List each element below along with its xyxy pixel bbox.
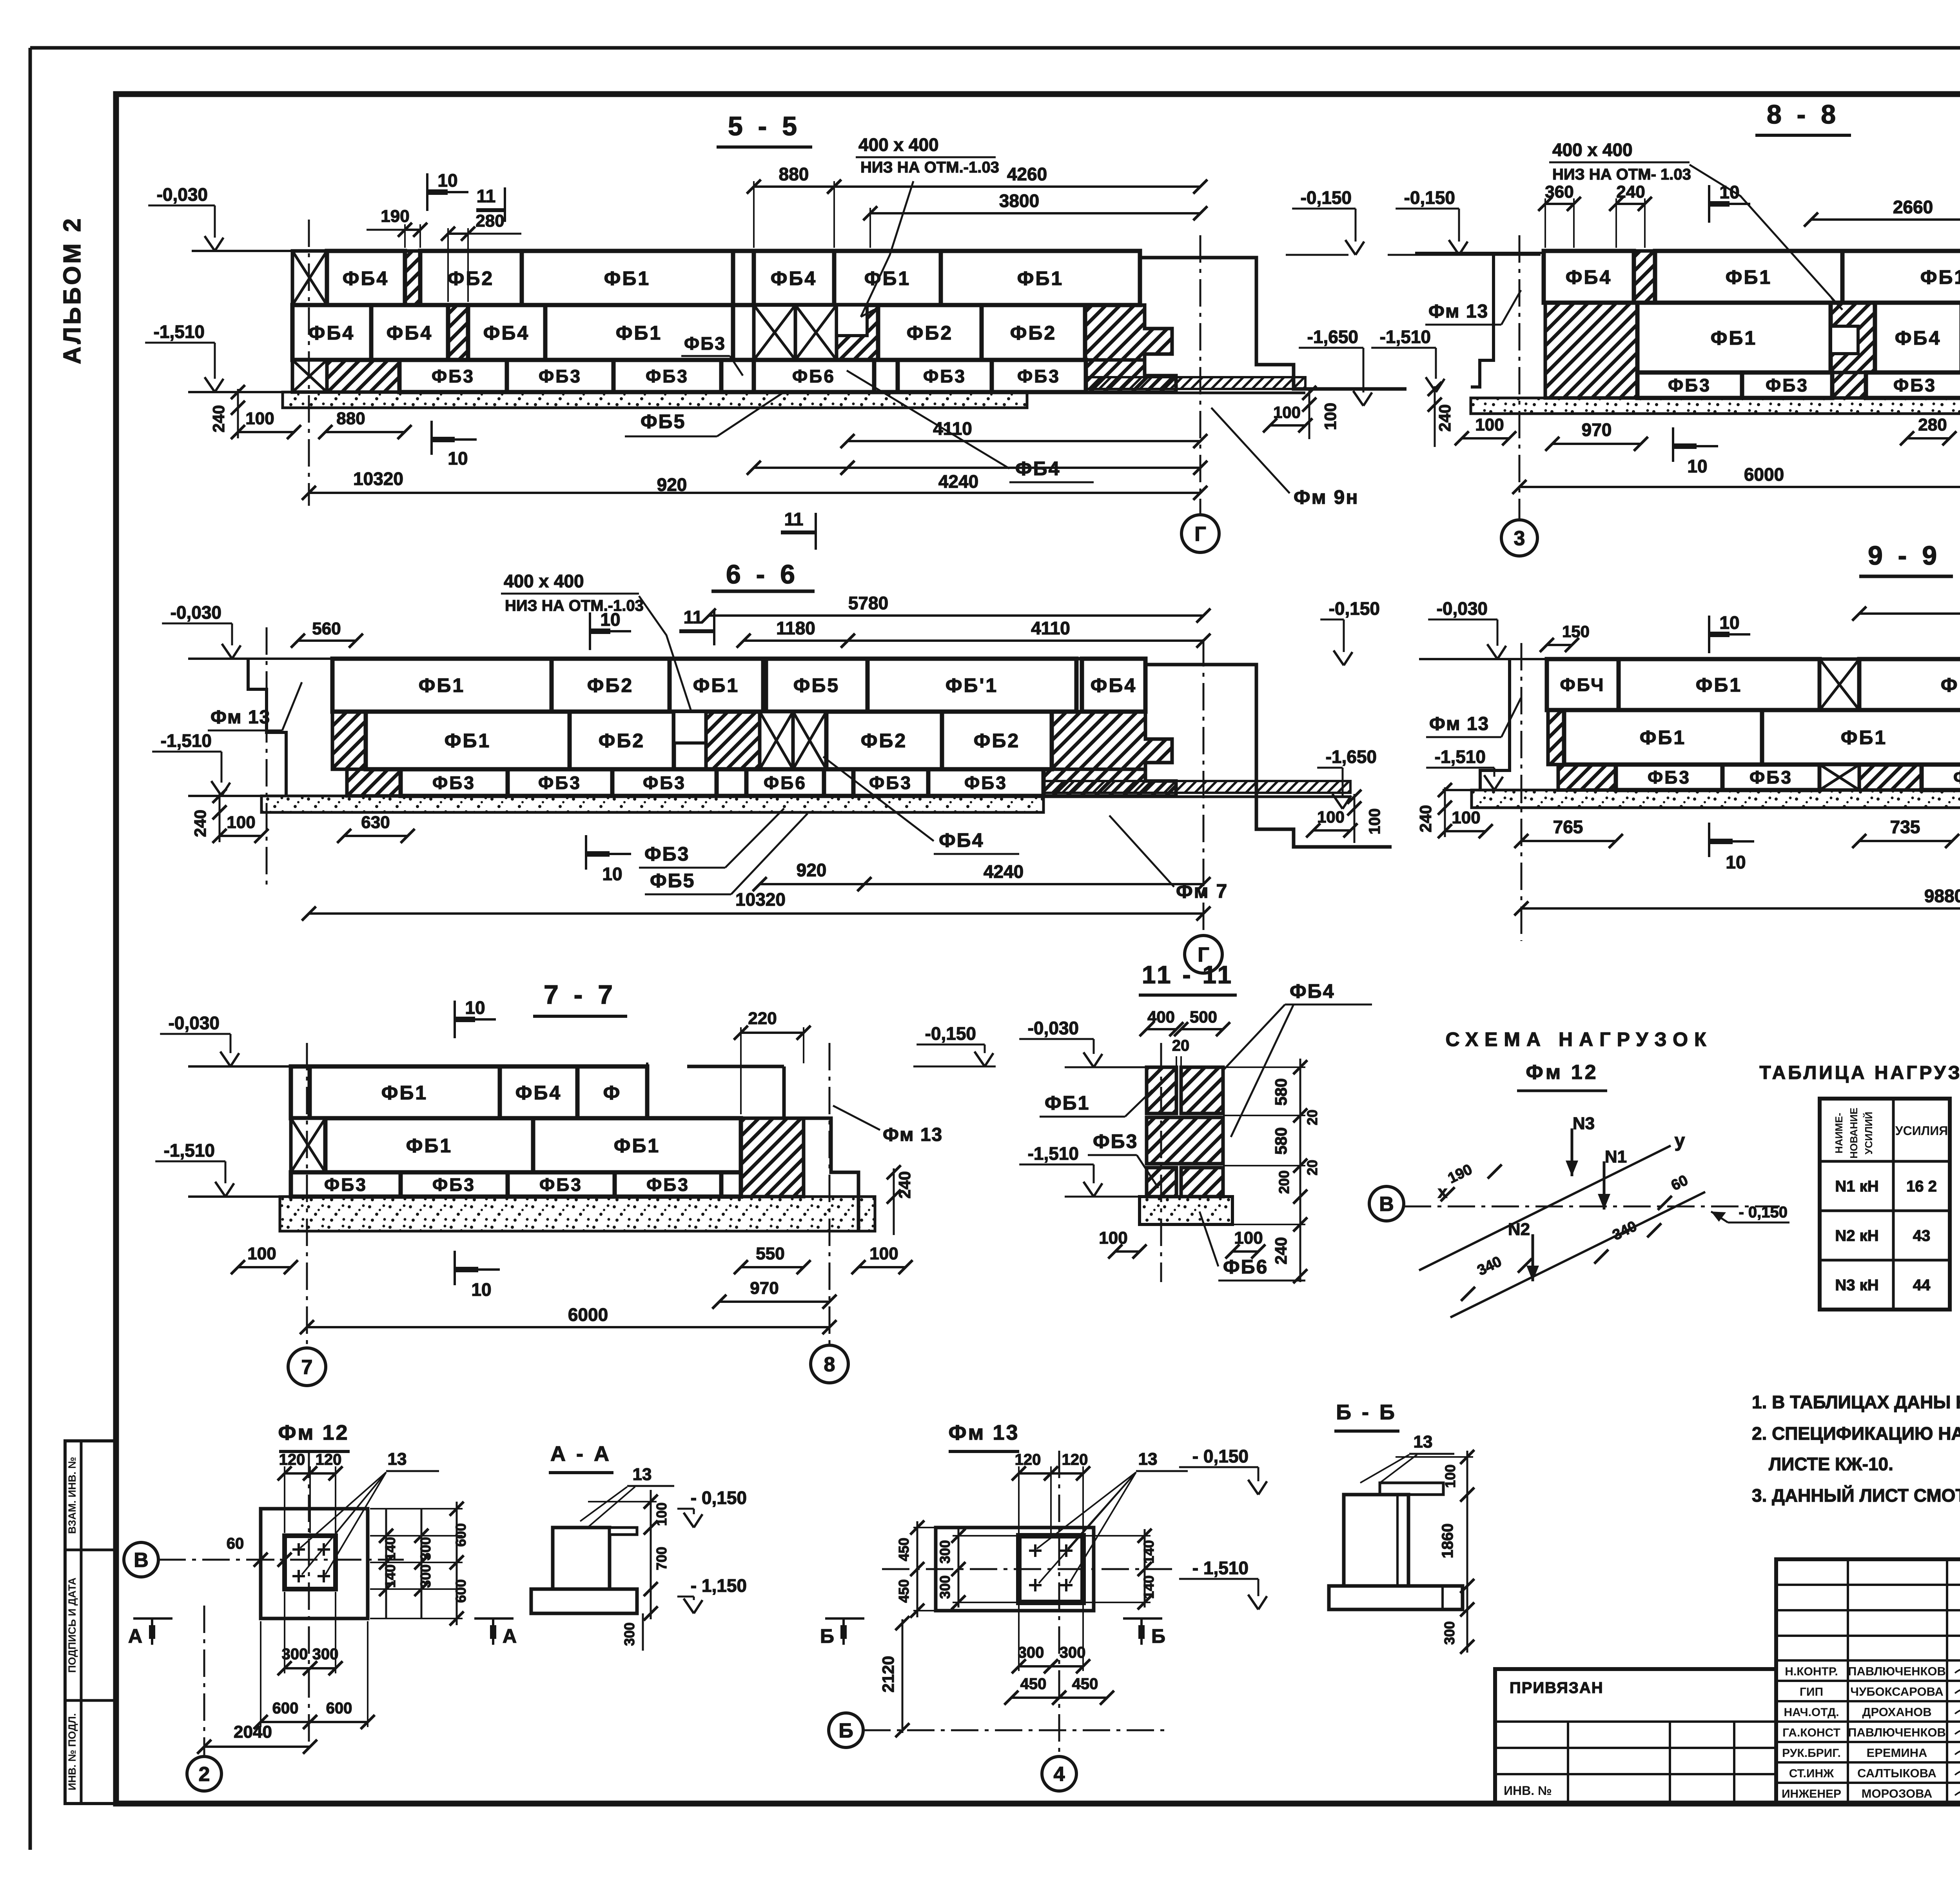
- 7-7 floor level lines: [188, 1065, 291, 1068]
- 9-9 sand strip: [1472, 790, 1960, 808]
- svg-text:1860: 1860: [1439, 1524, 1456, 1559]
- 6-6 bottom 240: [219, 793, 221, 842]
- svg-text:300: 300: [312, 1646, 339, 1663]
- plan Fm12 right vdims: [385, 1509, 387, 1618]
- 9-9 row1: [1547, 659, 1619, 710]
- svg-text:ФБ3: ФБ3: [964, 773, 1007, 793]
- svg-text:СХЕМА НАГРУЗОК: СХЕМА НАГРУЗОК: [1446, 1028, 1713, 1050]
- svg-text:ФБ6: ФБ6: [792, 366, 835, 387]
- 7-7 sand strip: [280, 1197, 875, 1231]
- 7-7 row1: [291, 1066, 310, 1118]
- svg-text:140: 140: [1141, 1540, 1157, 1564]
- 7-7 row3: [291, 1172, 401, 1197]
- svg-text:ФБ1: ФБ1: [1696, 674, 1742, 696]
- svg-text:10: 10: [448, 448, 468, 469]
- 5-5 row3 blocks: [292, 360, 327, 392]
- svg-text:Н.КОНТР.: Н.КОНТР.: [1785, 1665, 1838, 1678]
- svg-text:А: А: [503, 1625, 517, 1647]
- 5-5 right foundation profile: [1140, 251, 1406, 389]
- 7-7 bottom 100 left: [238, 1266, 291, 1268]
- svg-text:100: 100: [1475, 415, 1504, 434]
- svg-text:Ф: Ф: [603, 1082, 622, 1104]
- plan Fm12 axis circle B: [124, 1542, 158, 1577]
- svg-text:280: 280: [1918, 415, 1947, 434]
- 7-7 axis circle 7: [288, 1348, 326, 1386]
- 5-5 floor level line: [192, 250, 292, 252]
- plan Fm12 inner square: [285, 1536, 336, 1589]
- svg-text:ФБ2: ФБ2: [1010, 322, 1056, 344]
- 9-9 dim 150: [1547, 644, 1572, 646]
- svg-text:10: 10: [1719, 612, 1739, 633]
- svg-text:Б: Б: [838, 1720, 853, 1742]
- svg-text:ФБ2: ФБ2: [861, 730, 907, 752]
- sheet outer edge line left: [29, 48, 32, 1850]
- 8-8 row3: [1637, 372, 1742, 398]
- svg-text:11: 11: [477, 186, 496, 206]
- 5-5 cut mark 10 top: [426, 173, 428, 211]
- svg-text:11: 11: [684, 607, 703, 627]
- svg-text:190: 190: [381, 207, 409, 226]
- B-B top plate: [1380, 1483, 1443, 1495]
- svg-text:-0,030: -0,030: [169, 1013, 220, 1033]
- svg-text:ФБ2: ФБ2: [974, 730, 1020, 752]
- svg-text:В: В: [134, 1549, 149, 1572]
- svg-text:ФБ4: ФБ4: [515, 1082, 562, 1104]
- svg-text:ЕРЕМИНА: ЕРЕМИНА: [1867, 1746, 1927, 1760]
- 8-8 dim 360: [1544, 198, 1546, 248]
- svg-text:100: 100: [245, 409, 274, 428]
- 8-8 dim 2660: [1811, 218, 1960, 221]
- svg-text:13: 13: [388, 1450, 407, 1469]
- svg-text:240: 240: [1436, 404, 1454, 432]
- plan Fm12 axis circle 2: [187, 1757, 221, 1791]
- 9-9 row3: [1558, 765, 1616, 790]
- svg-text:300: 300: [621, 1622, 637, 1646]
- svg-text:10: 10: [1687, 456, 1707, 476]
- svg-text:ФБ3: ФБ3: [432, 773, 475, 793]
- svg-text:300: 300: [1441, 1621, 1457, 1645]
- svg-text:ФБ3: ФБ3: [539, 366, 582, 387]
- 9-9 dim 735: [1859, 840, 1952, 842]
- 5-5 vdim 240 right: [1434, 386, 1436, 447]
- 5-5 leader to notch: [861, 181, 913, 317]
- 7-7 axis 8: [829, 1043, 831, 1345]
- svg-text:ТАБЛИЦА НАГРУЗОК: ТАБЛИЦА НАГРУЗОК: [1759, 1063, 1960, 1083]
- svg-text:13: 13: [1414, 1432, 1433, 1451]
- 11-11 axis: [1160, 1043, 1162, 1282]
- 6-6 vdim 100 right: [1354, 794, 1356, 843]
- svg-text:НОВАНИЕ: НОВАНИЕ: [1848, 1108, 1860, 1159]
- 9-9 row2: [1548, 710, 1564, 765]
- svg-text:20: 20: [1304, 1110, 1320, 1125]
- svg-text:РУК.БРИГ.: РУК.БРИГ.: [1782, 1747, 1841, 1760]
- svg-text:ФБ4: ФБ4: [387, 322, 433, 344]
- svg-text:-1,510: -1,510: [1028, 1143, 1079, 1164]
- scheme Fm12 x axis: [1404, 1206, 1780, 1208]
- svg-text:ФБ4: ФБ4: [771, 267, 817, 289]
- svg-text:ФБ1: ФБ1: [1640, 727, 1686, 748]
- svg-text:765: 765: [1553, 817, 1583, 837]
- svg-text:Фм 7: Фм 7: [1176, 880, 1228, 902]
- svg-text:ФБ3: ФБ3: [538, 773, 581, 793]
- svg-text:9 - 9: 9 - 9: [1868, 541, 1941, 570]
- svg-text:120: 120: [316, 1451, 342, 1468]
- svg-text:450: 450: [896, 1579, 912, 1603]
- 5-5 cut mark 10 bottom: [430, 421, 433, 455]
- svg-text:10320: 10320: [735, 889, 786, 910]
- svg-text:Б: Б: [820, 1625, 834, 1647]
- svg-text:Фм 13: Фм 13: [948, 1421, 1019, 1444]
- svg-text:ФБ4: ФБ4: [1566, 266, 1612, 288]
- svg-text:ФБ1: ФБ1: [693, 674, 739, 696]
- svg-text:ФБ4: ФБ4: [483, 322, 530, 344]
- svg-text:-0,030: -0,030: [157, 184, 208, 205]
- svg-text:3: 3: [1514, 527, 1525, 550]
- 5-5 axis left: [308, 220, 310, 506]
- sheet outer edge line top: [30, 46, 1960, 50]
- svg-text:300: 300: [282, 1646, 308, 1663]
- axis circle 3: [1501, 520, 1537, 556]
- svg-text:7: 7: [301, 1356, 313, 1379]
- 6-6 row3: [347, 769, 401, 796]
- svg-text:140: 140: [1141, 1575, 1157, 1599]
- svg-text:ПАВЛЮЧЕНКОВ: ПАВЛЮЧЕНКОВ: [1848, 1664, 1946, 1678]
- left stamp boxes: [65, 1441, 116, 1804]
- svg-text:100: 100: [1321, 403, 1339, 430]
- svg-text:100: 100: [227, 813, 255, 832]
- svg-text:2040: 2040: [234, 1722, 272, 1742]
- plan Fm13 axis circle 4: [1042, 1757, 1076, 1791]
- svg-text:7 - 7: 7 - 7: [544, 980, 617, 1010]
- svg-text:ФБ3: ФБ3: [539, 1175, 583, 1195]
- svg-text:5 - 5: 5 - 5: [728, 111, 801, 141]
- plan Fm12 axes: [158, 1559, 404, 1561]
- svg-text:ФБ1: ФБ1: [1920, 266, 1960, 288]
- 5-5 dim 10320: [309, 492, 1200, 494]
- svg-text:ПОДПИСЬ И ДАТА: ПОДПИСЬ И ДАТА: [66, 1577, 78, 1673]
- A-A column: [553, 1528, 610, 1589]
- svg-text:630: 630: [361, 813, 390, 832]
- 8-8 sand strip: [1471, 398, 1960, 414]
- svg-text:6 - 6: 6 - 6: [726, 559, 799, 589]
- svg-text:16 2: 16 2: [1906, 1178, 1937, 1195]
- svg-text:300: 300: [417, 1537, 434, 1560]
- svg-text:6000: 6000: [1744, 464, 1784, 485]
- svg-text:Б: Б: [1151, 1625, 1165, 1647]
- svg-text:450: 450: [1072, 1675, 1098, 1693]
- svg-text:360: 360: [1545, 182, 1573, 202]
- 8-8 axis 3: [1519, 235, 1521, 519]
- svg-text:240: 240: [895, 1171, 914, 1199]
- svg-text:ФБ3: ФБ3: [646, 366, 689, 387]
- svg-text:970: 970: [750, 1279, 779, 1298]
- 5-5 right end hatched pier: [1085, 305, 1172, 360]
- svg-text:600: 600: [453, 1579, 469, 1603]
- svg-text:N3 кН: N3 кН: [1835, 1277, 1878, 1294]
- svg-text:ГА.КОНСТ: ГА.КОНСТ: [1782, 1726, 1840, 1739]
- 9-9 floor level line: [1419, 658, 1547, 660]
- svg-text:ФБ1: ФБ1: [1045, 1092, 1090, 1114]
- svg-text:ФБ3: ФБ3: [1953, 767, 1960, 788]
- 8-8 left profile Fm13: [1471, 253, 1494, 387]
- 5-5 dim 4240: [848, 467, 1200, 469]
- scheme Fm12 axis circle B: [1369, 1186, 1404, 1221]
- plan Fm13 axes: [882, 1568, 1172, 1570]
- svg-text:N2 кН: N2 кН: [1835, 1227, 1878, 1244]
- A-A vdim: [650, 1490, 652, 1619]
- svg-text:100: 100: [1452, 808, 1480, 827]
- 5-5 dim 100 right: [1270, 424, 1305, 427]
- 5-5 row1 blocks: [292, 251, 327, 305]
- svg-text:N1 кН: N1 кН: [1835, 1178, 1878, 1195]
- svg-text:- 1,510: - 1,510: [1192, 1558, 1249, 1578]
- svg-text:100: 100: [1442, 1464, 1458, 1488]
- svg-text:20: 20: [1172, 1037, 1190, 1054]
- svg-text:100: 100: [1317, 808, 1345, 826]
- svg-text:ФБ5: ФБ5: [641, 411, 686, 432]
- svg-text:-0,150: -0,150: [1404, 187, 1455, 208]
- 9-9 dim 5865: [1859, 612, 1960, 615]
- svg-text:А: А: [128, 1625, 142, 1647]
- svg-text:-0,030: -0,030: [171, 602, 221, 623]
- 5-5 axis G: [1200, 235, 1201, 515]
- 6-6 row2: [332, 712, 366, 769]
- svg-text:880: 880: [336, 409, 365, 428]
- B-B footing: [1329, 1586, 1463, 1609]
- plan Fm12 axis 2 line: [203, 1606, 205, 1755]
- svg-text:- 1,150: - 1,150: [691, 1575, 747, 1596]
- svg-text:ФБЧ: ФБЧ: [1560, 675, 1605, 695]
- svg-text:ФБ3: ФБ3: [643, 773, 686, 793]
- svg-text:ФБ3: ФБ3: [432, 1175, 475, 1195]
- svg-text:240: 240: [1416, 805, 1435, 832]
- svg-text:ФБ4: ФБ4: [309, 322, 355, 344]
- svg-text:ФБ1: ФБ1: [604, 267, 650, 289]
- svg-text:-1,510: -1,510: [164, 1140, 215, 1161]
- svg-text:-0,030: -0,030: [1437, 598, 1488, 619]
- 9-9 dim 9880: [1521, 907, 1960, 910]
- load table 1: [1820, 1099, 1950, 1310]
- svg-text:ФБ5: ФБ5: [793, 674, 840, 696]
- svg-text:ФБ1: ФБ1: [1017, 267, 1063, 289]
- svg-text:240: 240: [1616, 182, 1645, 202]
- svg-text:ФБ3: ФБ3: [1766, 375, 1809, 396]
- svg-text:43: 43: [1913, 1227, 1931, 1244]
- 5-5 400x400 notch: [837, 305, 867, 336]
- svg-text:В: В: [1379, 1193, 1394, 1216]
- svg-text:8: 8: [824, 1353, 835, 1376]
- svg-text:3. ДАННЫЙ ЛИСТ СМОТРИТЕ СОВМ: 3. ДАННЫЙ ЛИСТ СМОТРИТЕ СОВМЕСТНО С ЛИСТ…: [1752, 1485, 1960, 1506]
- svg-text:УСИЛИЯ: УСИЛИЯ: [1895, 1124, 1948, 1138]
- svg-text:ПРИВЯЗАН: ПРИВЯЗАН: [1510, 1679, 1604, 1697]
- svg-text:2. СПЕЦИФИКАЦИЮ НА ФУНДА: 2. СПЕЦИФИКАЦИЮ НА ФУНДАМЕНТЫ СМОТРЕТЬ Н…: [1752, 1423, 1960, 1444]
- 6-6 leader to notch: [639, 596, 691, 710]
- svg-text:-1,650: -1,650: [1307, 327, 1358, 347]
- 6-6 bottom 100: [220, 835, 261, 837]
- 7-7 bottom 100 right: [858, 1266, 906, 1268]
- 6-6 axis left: [266, 627, 268, 886]
- svg-text:13: 13: [633, 1465, 652, 1484]
- 6-6 dim 4240: [864, 883, 1203, 885]
- svg-text:100: 100: [653, 1502, 670, 1526]
- svg-text:ФБ2: ФБ2: [599, 730, 645, 752]
- svg-text:4260: 4260: [1007, 164, 1047, 184]
- scheme Fm12 force N2: [1532, 1234, 1534, 1281]
- 6-6 cut 11 top small: [713, 611, 715, 645]
- svg-text:Фм 13: Фм 13: [211, 707, 270, 728]
- svg-text:ФБ3: ФБ3: [1017, 366, 1060, 387]
- 6-6 row1: [332, 659, 552, 712]
- 5-5 cut mark 11 top: [504, 187, 506, 222]
- 8-8 dim 970: [1552, 443, 1641, 445]
- plan Fm13 dim 450 450: [1011, 1697, 1059, 1699]
- svg-text:6000: 6000: [568, 1304, 608, 1325]
- svg-text:ИНВ. № ПОДЛ.: ИНВ. № ПОДЛ.: [66, 1713, 78, 1791]
- plan Fm13 vdim 2120: [902, 1619, 904, 1733]
- 8-8 floor level line: [1415, 252, 1544, 254]
- svg-text:140: 140: [382, 1537, 398, 1560]
- svg-text:220: 220: [748, 1009, 777, 1028]
- svg-text:ФБ3: ФБ3: [646, 1175, 690, 1195]
- svg-text:4110: 4110: [1031, 618, 1070, 638]
- scheme Fm12 force N3: [1571, 1128, 1573, 1176]
- svg-text:ФБ3: ФБ3: [432, 366, 475, 387]
- svg-text:Б - Б: Б - Б: [1336, 1400, 1397, 1424]
- 5-5 pavement strip right: [1027, 377, 1305, 389]
- A-A top plate: [610, 1528, 637, 1535]
- svg-text:400 x 400: 400 x 400: [504, 571, 584, 591]
- 6-6 pavement strip right: [1044, 781, 1350, 793]
- 9-9 axis left: [1521, 643, 1523, 941]
- svg-text:560: 560: [312, 619, 341, 638]
- plan Fm13 inner square: [1019, 1536, 1083, 1602]
- svg-text:Фм 13: Фм 13: [1428, 301, 1488, 322]
- svg-text:ИНВ. №: ИНВ. №: [1504, 1784, 1552, 1798]
- 11-11 right dim stack: [1299, 1059, 1301, 1282]
- 11-11 blocks: [1147, 1067, 1176, 1113]
- svg-text:ФБ4: ФБ4: [939, 829, 984, 851]
- svg-text:-0,150: -0,150: [1301, 187, 1352, 208]
- svg-text:ФБ6: ФБ6: [1223, 1256, 1268, 1278]
- svg-text:УСИЛИЙ: УСИЛИЙ: [1863, 1112, 1875, 1154]
- 7-7 axis circle 8: [811, 1345, 848, 1383]
- 6-6 right foundation profile: [1145, 659, 1392, 847]
- svg-text:60: 60: [227, 1535, 244, 1552]
- svg-text:400 x 400: 400 x 400: [858, 134, 939, 155]
- 5-5 bottom dim 100: [238, 431, 294, 433]
- scheme Fm12 force N1: [1603, 1161, 1606, 1210]
- svg-text:ФБ2: ФБ2: [907, 322, 953, 344]
- svg-text:400 x 400: 400 x 400: [1552, 140, 1633, 160]
- 9-9 cut 10 top: [1708, 616, 1710, 653]
- svg-text:НИЗ НА ОТМ.-1.03: НИЗ НА ОТМ.-1.03: [860, 159, 999, 176]
- 5-5 bottom dim 240: [237, 389, 239, 438]
- svg-text:Фм 13: Фм 13: [1429, 714, 1489, 734]
- svg-text:300: 300: [417, 1564, 434, 1588]
- 7-7 dim 550: [741, 1266, 804, 1268]
- 6-6 axis circle G: [1185, 935, 1222, 973]
- 5-5 vdim 100 right: [1308, 389, 1310, 439]
- svg-text:СТ.ИНЖ: СТ.ИНЖ: [1789, 1767, 1834, 1780]
- 6-6 bottom 630: [344, 835, 408, 837]
- 5-5 dim 880 top: [753, 181, 755, 248]
- svg-text:1180: 1180: [776, 618, 815, 638]
- svg-text:ФБ1: ФБ1: [381, 1082, 428, 1104]
- svg-text:N1: N1: [1605, 1147, 1627, 1166]
- axis circle G: [1181, 515, 1219, 552]
- 9-9 left profile Fm13: [1480, 659, 1510, 790]
- svg-text:НИЗ НА ОТМ- 1.03: НИЗ НА ОТМ- 1.03: [1552, 166, 1691, 183]
- 7-7 dim 220: [740, 1027, 742, 1114]
- svg-text:ФБ1: ФБ1: [1726, 266, 1772, 288]
- 11-11 footing: [1140, 1197, 1232, 1224]
- svg-text:13: 13: [1138, 1450, 1158, 1469]
- svg-text:100: 100: [247, 1244, 276, 1263]
- svg-text:150: 150: [1562, 622, 1590, 641]
- svg-text:300: 300: [937, 1540, 953, 1564]
- plan Fm13 dim 300 300: [1018, 1605, 1020, 1671]
- svg-text:ФБ1: ФБ1: [1711, 327, 1757, 349]
- svg-text:2: 2: [199, 1763, 210, 1786]
- svg-text:400: 400: [1147, 1008, 1175, 1026]
- svg-text:ДРОХАНОВ: ДРОХАНОВ: [1862, 1705, 1931, 1719]
- svg-text:ФБ1: ФБ1: [616, 322, 662, 344]
- svg-text:-1,510: -1,510: [1435, 747, 1486, 767]
- plan Fm12 outer square: [261, 1509, 368, 1618]
- svg-text:10: 10: [602, 864, 622, 884]
- plan Fm13 dim 120 120: [1018, 1466, 1020, 1533]
- svg-text:ФБ3: ФБ3: [923, 366, 966, 387]
- svg-text:44: 44: [1913, 1277, 1931, 1294]
- svg-text:120: 120: [279, 1451, 305, 1468]
- 8-8 bottom 100: [1462, 437, 1509, 440]
- 5-5 dim 3800: [869, 208, 871, 248]
- svg-text:3800: 3800: [999, 191, 1039, 211]
- plan Fm12 dim 300 300: [284, 1592, 285, 1673]
- 7-7 row2: [291, 1118, 325, 1172]
- 5-5 bottom dim 880: [325, 431, 405, 433]
- svg-text:ФБ3: ФБ3: [324, 1175, 367, 1195]
- svg-text:20: 20: [1304, 1160, 1320, 1175]
- svg-text:ФБ'1: ФБ'1: [946, 674, 998, 696]
- svg-text:600: 600: [272, 1700, 299, 1717]
- 8-8 row1: [1544, 251, 1634, 303]
- 6-6 dim 560: [298, 639, 356, 642]
- svg-text:Фм 13: Фм 13: [883, 1124, 943, 1145]
- svg-text:300: 300: [1060, 1644, 1086, 1661]
- 7-7 dim 6000: [307, 1326, 829, 1328]
- 7-7 vdim 240 right: [893, 1168, 895, 1235]
- 6-6 dim 10320: [309, 912, 1203, 915]
- svg-text:-0,030: -0,030: [1028, 1018, 1079, 1038]
- 11-11 dims 400 500: [1147, 1028, 1176, 1030]
- svg-text:- 0,150: - 0,150: [691, 1488, 747, 1508]
- svg-text:ФБ2: ФБ2: [448, 267, 494, 289]
- 5-5 dim 4260: [834, 185, 1200, 188]
- svg-text:ФБ4: ФБ4: [1091, 674, 1137, 696]
- 8-8 cut 10 top: [1708, 185, 1710, 223]
- svg-text:-1,510: -1,510: [1380, 327, 1431, 347]
- svg-text:100: 100: [1099, 1228, 1127, 1248]
- svg-text:11: 11: [784, 509, 804, 529]
- svg-text:120: 120: [1015, 1451, 1041, 1468]
- 8-8 dim 240: [1615, 198, 1617, 248]
- svg-text:-1,650: -1,650: [1326, 747, 1377, 767]
- 9-9 dim 765: [1521, 840, 1616, 842]
- svg-text:200: 200: [1276, 1170, 1292, 1194]
- svg-text:ФБ3: ФБ3: [1648, 767, 1691, 788]
- svg-text:580: 580: [1272, 1127, 1290, 1155]
